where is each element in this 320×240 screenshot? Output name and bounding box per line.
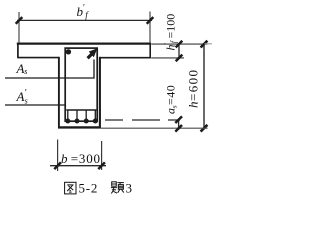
stirrup bbox=[65, 48, 97, 121]
dimension b'f extension lines bbox=[18, 12, 20, 43]
T-beam web left edge bbox=[58, 57, 60, 128]
dimension b line bbox=[50, 165, 106, 167]
label A's bbox=[16, 88, 28, 105]
leader line A's bbox=[5, 104, 66, 106]
svg-text:=300: =300 bbox=[71, 151, 101, 166]
label h=600 (rotated) bbox=[186, 69, 201, 108]
T-beam flange bottom-left edge bbox=[17, 57, 59, 59]
svg-text:3: 3 bbox=[126, 181, 133, 196]
extension line top right (h'f / h) bbox=[151, 43, 207, 45]
leader line As bbox=[5, 60, 94, 79]
T-beam flange top edge bbox=[17, 42, 151, 44]
dimension b extension right bbox=[101, 141, 103, 170]
svg-text:=40: =40 bbox=[164, 85, 178, 105]
dimension h'f tick top bbox=[176, 41, 183, 48]
dimension as line bbox=[178, 119, 180, 130]
caption glyph 图 bbox=[65, 182, 76, 194]
extension line bottom right (as / h) bbox=[101, 127, 208, 129]
svg-text:A: A bbox=[16, 61, 25, 76]
dimension h'f line bbox=[178, 43, 180, 59]
dimension b tick right bbox=[98, 162, 105, 169]
svg-text:5-2: 5-2 bbox=[79, 181, 99, 196]
bottom rebar dots (4) bbox=[65, 119, 98, 124]
label as=40 (rotated) bbox=[164, 85, 179, 114]
caption glyph 题 bbox=[111, 182, 124, 194]
dimension b'f tick right bbox=[147, 17, 154, 24]
label h'f=100 (rotated) bbox=[163, 14, 179, 51]
dimension b extension left bbox=[57, 140, 59, 172]
svg-text:A: A bbox=[16, 89, 25, 104]
dimension h tick top bbox=[201, 41, 208, 48]
svg-text:=100: =100 bbox=[164, 14, 178, 39]
T-beam web right edge bbox=[99, 57, 101, 128]
label As bbox=[16, 61, 28, 76]
top rebar dot bbox=[66, 49, 71, 54]
dimension b'f tick left bbox=[16, 17, 23, 24]
T-beam web bottom edge bbox=[58, 126, 101, 128]
dimension as tick top bbox=[175, 116, 182, 123]
T-beam flange left edge bbox=[17, 43, 19, 58]
T-beam flange right edge bbox=[149, 43, 151, 58]
extension line h'f bottom bbox=[151, 57, 184, 59]
label b'f bbox=[77, 3, 90, 21]
svg-text:b: b bbox=[61, 151, 68, 166]
dimension b tick left bbox=[54, 162, 61, 169]
extension overshoot at h top bbox=[205, 43, 213, 45]
label b=300 bbox=[61, 151, 101, 166]
dimension h line bbox=[203, 44, 205, 128]
dimension h tick bottom bbox=[201, 125, 208, 132]
svg-text:h: h bbox=[186, 102, 201, 109]
dimension as tick bottom bbox=[175, 125, 182, 132]
svg-text:s: s bbox=[24, 67, 27, 76]
bottom rebar hook bar bbox=[66, 109, 96, 111]
svg-text:s: s bbox=[25, 97, 28, 106]
leader arrow As bbox=[88, 53, 93, 58]
svg-text:=600: =600 bbox=[186, 69, 201, 101]
T-beam flange bottom-right edge bbox=[99, 57, 150, 59]
dimension h'f tick bottom bbox=[176, 55, 183, 62]
bottom rebar hook legs bbox=[68, 110, 96, 119]
as centroid dash line bbox=[105, 119, 180, 121]
dimension b'f line bbox=[17, 19, 152, 21]
